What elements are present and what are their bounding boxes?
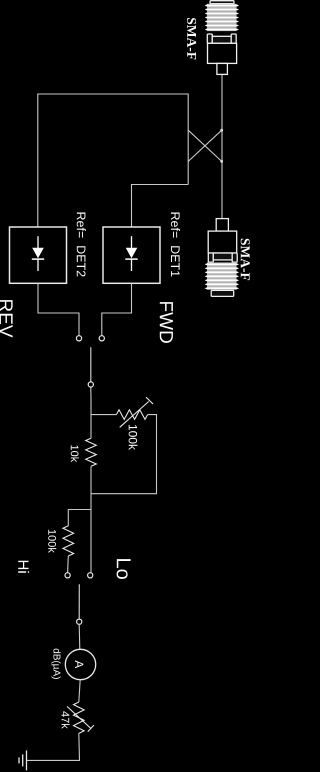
switch S1 contact (REV side) xyxy=(76,336,81,341)
junction dot (coupler top) xyxy=(220,129,223,132)
wire: branch to Hi range resistor xyxy=(68,510,91,526)
label 47k xyxy=(62,711,70,729)
label Lo xyxy=(117,559,131,579)
wire: 100k to Hi contact xyxy=(67,556,70,573)
detector DET2 box xyxy=(10,227,67,283)
wire: branch to calibration pot xyxy=(91,414,116,416)
wire: coupled port down to DET1 xyxy=(132,185,189,228)
label Ref= DET1 xyxy=(171,213,180,277)
label dB(uA) xyxy=(51,649,60,679)
meter M1 xyxy=(65,649,95,679)
wire: pole to meter xyxy=(78,624,81,649)
label SMA-F (top connector) xyxy=(187,18,196,59)
SMA-F connector J2 (bottom) xyxy=(207,219,237,290)
label 100k (pot) xyxy=(129,425,138,450)
switch S2 pole xyxy=(77,619,82,624)
label SMA-F (bottom connector) xyxy=(241,239,250,280)
wire: pole down / main divider line xyxy=(90,387,92,438)
label REV xyxy=(0,300,13,337)
meter letter A xyxy=(75,660,83,668)
ground xyxy=(19,750,27,770)
SMA-F connector J1 (top) xyxy=(205,1,239,75)
label Ref= DET2 xyxy=(77,213,86,277)
switch S1 arm xyxy=(90,347,92,382)
label Hi xyxy=(18,561,29,573)
switch S1 pole xyxy=(88,382,93,387)
resistor 10k xyxy=(86,438,97,466)
switch S2 contact (Hi) xyxy=(65,573,70,578)
potentiometer 47k xyxy=(74,702,85,733)
wire: top loop to DET2 xyxy=(38,94,188,227)
resistor 100k (Hi range) xyxy=(63,526,74,556)
label 100k (Hi) xyxy=(48,530,56,553)
detector DET1 box xyxy=(103,227,160,283)
wire: pot right side back to divider xyxy=(91,415,157,494)
diode D1 xyxy=(125,236,137,271)
switch S2 contact (Lo) xyxy=(88,573,93,578)
label FWD xyxy=(160,302,173,343)
switch S2 arm xyxy=(78,584,80,619)
directional coupler X xyxy=(188,130,222,161)
wire: main coax line from top SMA-F to bottom SMA-F xyxy=(221,74,223,218)
wire: meter to 47k xyxy=(79,680,80,702)
wire: DET1 to switch contact FWD xyxy=(102,283,132,335)
junction dot (coupler bottom) xyxy=(220,160,223,163)
pot arrow xyxy=(120,397,153,427)
wire: 47k to ground xyxy=(27,733,80,760)
pot 47k arrow xyxy=(67,706,94,731)
wire: DET2 to switch contact REV xyxy=(38,283,79,335)
wire: divider lower section xyxy=(90,466,92,572)
potentiometer 100k (calibration) xyxy=(116,410,147,420)
switch S1 contact (FWD side) xyxy=(99,336,104,341)
label 10k xyxy=(71,445,79,462)
diode D2 xyxy=(32,236,44,271)
